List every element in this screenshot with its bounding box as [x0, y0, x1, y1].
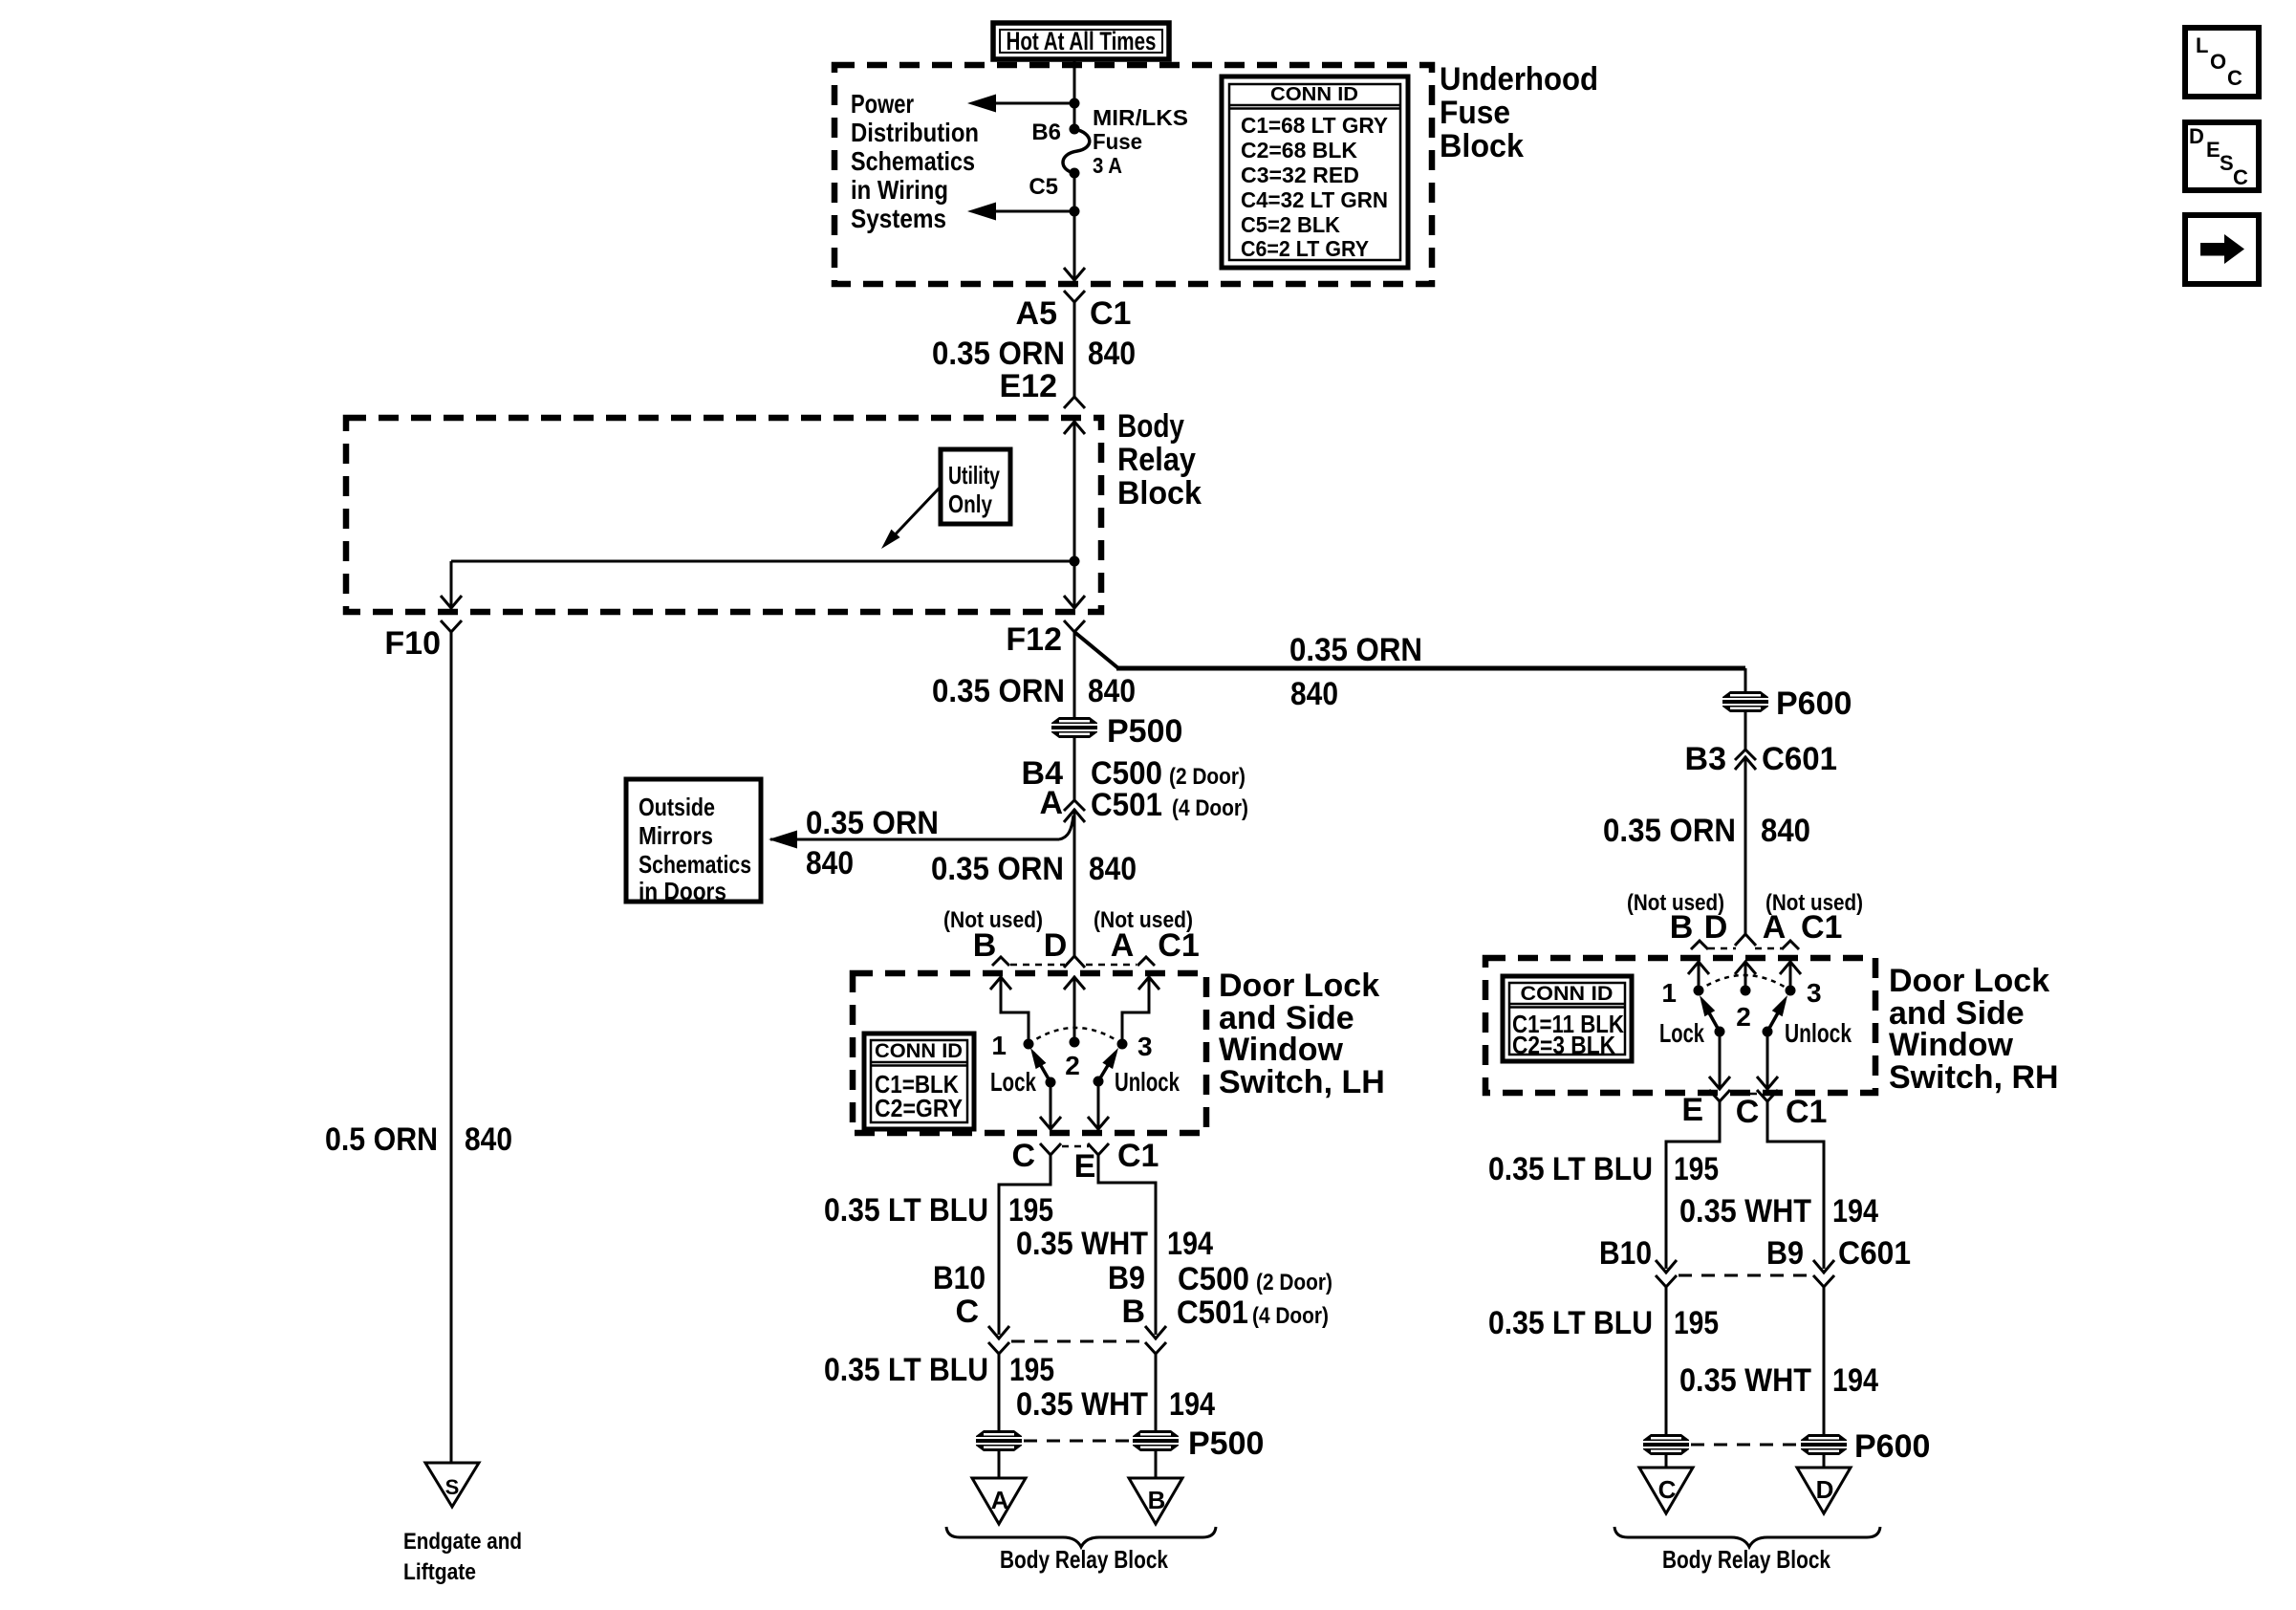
- connector F10 of body relay block: [384, 620, 462, 662]
- svg-text:MIR/LKS: MIR/LKS: [1093, 105, 1188, 130]
- off-page triangle D: [1797, 1468, 1851, 1513]
- svg-text:C501: C501: [1177, 1295, 1248, 1331]
- connector CONN ID table of RH switch: [1503, 976, 1632, 1061]
- connector P600 grommet left: [1643, 1434, 1689, 1455]
- connector dashed link C500/C501: [1011, 1340, 1143, 1343]
- wire utility-only branch horizontal: [451, 560, 1074, 563]
- label 0.35 ORN (right top): [1289, 632, 1422, 668]
- wire C1 jog right (RH 194): [1767, 1101, 1824, 1269]
- label Endgate and Liftgate: [403, 1529, 522, 1585]
- pin chevron B (RH): [1691, 941, 1708, 949]
- arrow unlock wire at box edge (RH): [1757, 1077, 1778, 1089]
- junction node utility branch: [1070, 556, 1080, 567]
- fuse F MIR/LKS 3A symbol: [1063, 129, 1090, 173]
- svg-text:0.35 ORN: 0.35 ORN: [806, 805, 939, 841]
- wire pin A to terminal 3 (RH): [1789, 962, 1792, 990]
- off-page triangle A: [972, 1478, 1026, 1524]
- svg-text:Block: Block: [1440, 128, 1524, 164]
- label Body Relay Block: [1117, 408, 1202, 511]
- svg-text:Underhood: Underhood: [1440, 61, 1598, 98]
- arrow at F10 exit: [441, 596, 462, 608]
- label 0.35 LT BLU 195 (RH): [1488, 1151, 1719, 1187]
- wire: [1665, 1455, 1668, 1468]
- arrow at F12 exit: [1064, 596, 1085, 608]
- leader arrow from Utility Only box: [881, 487, 941, 549]
- wire: [1073, 632, 1076, 718]
- svg-text:D: D: [1704, 909, 1728, 946]
- svg-text:A: A: [1039, 785, 1063, 821]
- svg-text:Only: Only: [948, 490, 992, 518]
- body relay block dashed box: [346, 418, 1101, 612]
- label 0.35 LT BLU 195 (lower): [824, 1352, 1054, 1388]
- door lock and side window switch RH dashed box: [1485, 958, 1875, 1093]
- svg-text:Window: Window: [1889, 1027, 2014, 1063]
- svg-text:0.35 WHT: 0.35 WHT: [1679, 1193, 1811, 1229]
- svg-text:(2 Door): (2 Door): [1169, 764, 1245, 790]
- label Door Lock and Side Window Switch, LH: [1219, 968, 1385, 1100]
- arrow lock wire at box edge (RH): [1709, 1077, 1730, 1089]
- svg-text:C4=32 LT GRN: C4=32 LT GRN: [1241, 187, 1388, 212]
- connector pin D (main): [1064, 956, 1085, 968]
- svg-text:C1: C1: [1158, 927, 1199, 964]
- label 0.35 WHT 194 (lower): [1016, 1386, 1215, 1423]
- label 0.35 WHT 194: [1016, 1226, 1213, 1262]
- svg-text:1: 1: [1661, 978, 1677, 1008]
- wire inside body relay block: [1073, 422, 1076, 606]
- label 0.35 ORN 840: [932, 336, 1136, 372]
- svg-text:Utility: Utility: [948, 461, 1000, 490]
- svg-text:Systems: Systems: [851, 204, 946, 233]
- terminal 2 (RH): [1736, 986, 1751, 1033]
- wire pin B to terminal 1 (RH): [1698, 962, 1700, 990]
- svg-text:(4 Door): (4 Door): [1172, 795, 1248, 821]
- svg-text:C1: C1: [1117, 1138, 1159, 1174]
- label B10 / B9 / C601 (RH): [1599, 1235, 1911, 1272]
- svg-text:P500: P500: [1107, 713, 1182, 750]
- pin chevron B: [992, 957, 1009, 966]
- arrow pin D into edge: [1064, 977, 1085, 990]
- svg-text:F10: F10: [384, 625, 441, 662]
- label B4 / C500 (2 Door): [1022, 755, 1245, 792]
- node Hot At All Times label box: [993, 23, 1169, 59]
- switch throw dashed arc (RH): [1699, 975, 1790, 990]
- wire arrow to power distribution schematics (lower): [967, 203, 1074, 221]
- svg-text:C3=32 RED: C3=32 RED: [1241, 163, 1359, 187]
- svg-text:Body Relay Block: Body Relay Block: [1000, 1545, 1168, 1574]
- pin C5 of fuse: [1029, 168, 1079, 201]
- wire 0.35 ORN 840 (to RH door): [1074, 632, 1745, 692]
- label 0.35 ORN 840: [1603, 813, 1810, 849]
- connector C601 inline left: [1656, 1260, 1677, 1287]
- connector dashed links (RH C1): [1708, 947, 1782, 950]
- svg-text:C1: C1: [1090, 295, 1131, 332]
- svg-text:0.5 ORN: 0.5 ORN: [325, 1121, 438, 1158]
- svg-text:840: 840: [806, 845, 854, 881]
- svg-text:C601: C601: [1838, 1235, 1911, 1272]
- svg-text:S: S: [445, 1475, 460, 1499]
- svg-text:B: B: [1121, 1294, 1145, 1330]
- svg-text:in Doors: in Doors: [639, 877, 726, 905]
- svg-text:CONN ID: CONN ID: [1521, 983, 1614, 1005]
- pin chevron A: [1137, 957, 1155, 966]
- wire: [998, 1451, 1001, 1478]
- connector dashed link P600: [1691, 1444, 1799, 1447]
- svg-text:Power: Power: [851, 89, 914, 119]
- svg-text:Mirrors: Mirrors: [639, 821, 713, 850]
- wire: [1073, 738, 1076, 800]
- svg-text:B6: B6: [1031, 120, 1061, 145]
- svg-text:0.35 LT BLU: 0.35 LT BLU: [1488, 1305, 1653, 1341]
- connector E / C1 below RH switch: [1681, 1090, 1730, 1128]
- svg-text:Distribution: Distribution: [851, 118, 979, 147]
- terminal 3 (RH): [1786, 978, 1822, 1008]
- svg-text:0.35 WHT: 0.35 WHT: [1679, 1362, 1811, 1399]
- svg-text:840: 840: [1761, 813, 1810, 849]
- pin B6 of fuse: [1031, 120, 1079, 145]
- label 0.35 ORN 840 (mirror branch): [806, 805, 939, 881]
- connector P500 grommet (top): [1051, 713, 1182, 750]
- svg-text:C: C: [1658, 1475, 1677, 1504]
- svg-text:P600: P600: [1776, 685, 1852, 722]
- connector P500 grommet right: [1133, 1425, 1264, 1462]
- svg-text:C501: C501: [1091, 787, 1162, 823]
- door lock and side window switch LH dashed box: [853, 973, 1206, 1133]
- svg-text:195: 195: [1008, 1192, 1053, 1229]
- wire branch to outside mirrors schematics: [769, 810, 1085, 849]
- svg-text:3 A: 3 A: [1093, 153, 1122, 178]
- svg-text:Fuse: Fuse: [1093, 129, 1142, 154]
- switch throw dashed arc (LH): [1029, 1028, 1122, 1044]
- label (Not used) left: [943, 907, 1043, 933]
- svg-text:B10: B10: [933, 1260, 986, 1296]
- svg-text:CONN ID: CONN ID: [1270, 84, 1358, 105]
- label Lock (LH): [990, 1067, 1036, 1097]
- wire E jog left (195): [999, 1155, 1051, 1335]
- svg-text:Outside: Outside: [639, 793, 715, 821]
- svg-text:C2=3 BLK: C2=3 BLK: [1512, 1031, 1615, 1059]
- svg-text:Fuse: Fuse: [1440, 95, 1510, 131]
- svg-text:C500: C500: [1178, 1261, 1249, 1297]
- wire 195 to P600: [1665, 1287, 1668, 1434]
- wire 194 to P600: [1823, 1287, 1826, 1434]
- connector dashed link (RH C1 lower): [1738, 1093, 1763, 1096]
- label 0.35 ORN 840: [931, 851, 1137, 887]
- arrow pin B into edge (RH): [1688, 962, 1709, 974]
- svg-text:B9: B9: [1108, 1260, 1145, 1296]
- svg-text:in Wiring: in Wiring: [851, 175, 948, 205]
- wire: [1744, 712, 1747, 750]
- svg-text:E: E: [2206, 138, 2220, 162]
- pin labels B D A C1 (LH switch C1): [973, 927, 1200, 964]
- svg-text:Unlock: Unlock: [1115, 1067, 1180, 1097]
- svg-text:C2=GRY: C2=GRY: [875, 1094, 963, 1122]
- svg-text:0.35 ORN: 0.35 ORN: [932, 673, 1065, 709]
- connector P600 grommet right: [1801, 1428, 1930, 1465]
- svg-text:B9: B9: [1766, 1235, 1804, 1272]
- label MIR/LKS Fuse 3 A: [1093, 105, 1188, 178]
- connector P500 grommet left: [976, 1430, 1022, 1451]
- wire: [1155, 1451, 1158, 1478]
- svg-text:0.35 LT BLU: 0.35 LT BLU: [1488, 1151, 1653, 1187]
- connector C / C1 below RH switch: [1736, 1090, 1828, 1130]
- brace body relay block (RH): [1614, 1527, 1880, 1547]
- svg-text:C: C: [1011, 1138, 1035, 1174]
- connector C601 inline right: [1813, 1260, 1834, 1287]
- wire: [1073, 103, 1076, 129]
- svg-text:Hot At All Times: Hot At All Times: [1007, 27, 1157, 55]
- svg-text:B: B: [973, 927, 997, 964]
- svg-text:C: C: [2227, 66, 2242, 90]
- wire pin D to terminal 2 (RH): [1744, 962, 1747, 990]
- svg-text:C: C: [2233, 165, 2248, 189]
- wire 0.35 ORN 840 (fuse block to body relay block): [1073, 302, 1076, 397]
- svg-text:D: D: [1044, 927, 1068, 964]
- label Door Lock and Side Window Switch, RH: [1889, 963, 2059, 1096]
- icon box LOC: [2185, 28, 2259, 97]
- svg-text:A: A: [1763, 909, 1787, 946]
- svg-text:Body Relay Block: Body Relay Block: [1662, 1545, 1830, 1574]
- wire 0.35 ORN 840 (to LH switch): [1073, 809, 1076, 956]
- svg-text:0.35 WHT: 0.35 WHT: [1016, 1226, 1148, 1262]
- connector F12 of body relay block: [1006, 620, 1085, 658]
- label B10 / C (pins into body relay block LH): [933, 1260, 986, 1330]
- wire: [1823, 1455, 1826, 1468]
- arrow pin D into edge (RH): [1735, 962, 1756, 974]
- junction node B6 feed: [1070, 98, 1080, 109]
- terminal 2 (LH): [1065, 1037, 1080, 1081]
- arrow pin A into edge: [1138, 977, 1159, 990]
- terminal 1 (RH): [1661, 978, 1703, 1008]
- wire 0.35 ORN 840 (to RH switch): [1744, 756, 1747, 934]
- svg-text:C1: C1: [1786, 1094, 1827, 1130]
- svg-text:S: S: [2220, 151, 2234, 175]
- arrow unlock wire at box edge (LH): [1088, 1117, 1109, 1129]
- svg-text:3: 3: [1807, 978, 1822, 1008]
- wire pin D to terminal 2: [1073, 977, 1076, 1042]
- svg-text:Window: Window: [1219, 1032, 1344, 1068]
- svg-text:B10: B10: [1599, 1235, 1652, 1272]
- svg-text:P600: P600: [1854, 1428, 1930, 1465]
- svg-text:194: 194: [1167, 1226, 1213, 1262]
- terminal 1 (LH): [991, 1031, 1033, 1060]
- svg-text:194: 194: [1169, 1386, 1215, 1423]
- connector C / C1 below LH switch: [1011, 1138, 1061, 1174]
- note box Outside Mirrors Schematics in Doors: [626, 779, 761, 905]
- wire pin B to terminal 1: [1001, 977, 1029, 1044]
- wire 195 to P500: [998, 1354, 1001, 1430]
- svg-text:C5: C5: [1029, 174, 1058, 200]
- svg-text:P500: P500: [1188, 1425, 1264, 1462]
- svg-text:CONN ID: CONN ID: [875, 1040, 963, 1062]
- connector dashed link (LH C1 lower): [1062, 1145, 1089, 1148]
- svg-text:2: 2: [1065, 1051, 1080, 1080]
- wire utility-only branch down: [450, 561, 453, 606]
- switch arm lock (LH): [1030, 1048, 1056, 1088]
- wire C1 jog right (194): [1098, 1155, 1156, 1335]
- svg-text:840: 840: [1088, 673, 1136, 709]
- arrow exiting fuse block: [1064, 268, 1085, 280]
- wire: [1073, 211, 1076, 278]
- svg-text:840: 840: [1088, 336, 1136, 372]
- svg-text:195: 195: [1009, 1352, 1054, 1388]
- wire lock arm down (LH): [1050, 1082, 1052, 1127]
- connector pin D (RH main): [1735, 934, 1756, 946]
- arrow pin B into edge: [990, 977, 1011, 990]
- switch arm unlock (RH): [1763, 995, 1788, 1037]
- svg-text:194: 194: [1832, 1193, 1878, 1229]
- svg-text:C: C: [1736, 1094, 1760, 1130]
- off-page triangle C: [1639, 1468, 1693, 1513]
- wire lock arm down (RH): [1719, 1032, 1722, 1087]
- label B9 / B (pins into body relay block LH): [1108, 1260, 1145, 1330]
- wire: [1073, 173, 1076, 211]
- label C500 (2 Door) / C501 (4 Door) right: [1177, 1261, 1332, 1331]
- svg-text:B: B: [1670, 909, 1694, 946]
- switch arm unlock (LH): [1094, 1048, 1119, 1087]
- wire E jog left (RH 195): [1666, 1101, 1720, 1269]
- svg-text:840: 840: [465, 1121, 512, 1158]
- label Body Relay Block (RH bottom): [1662, 1545, 1830, 1574]
- svg-text:Switch, LH: Switch, LH: [1219, 1064, 1385, 1100]
- svg-text:C601: C601: [1762, 741, 1837, 777]
- svg-text:D: D: [2189, 124, 2204, 148]
- svg-text:0.35 ORN: 0.35 ORN: [932, 336, 1065, 372]
- svg-text:840: 840: [1290, 676, 1338, 712]
- svg-text:2: 2: [1736, 1002, 1751, 1032]
- svg-text:Schematics: Schematics: [851, 146, 975, 176]
- off-page triangle S: [425, 1463, 479, 1507]
- icon box DESC: [2185, 122, 2259, 190]
- terminal 3 (LH): [1117, 1032, 1153, 1061]
- arrow entering body relay block: [1064, 422, 1085, 434]
- svg-text:0.35 ORN: 0.35 ORN: [931, 851, 1064, 887]
- svg-text:C5=2 BLK: C5=2 BLK: [1241, 212, 1340, 237]
- arrow pin A into edge (RH): [1780, 962, 1801, 974]
- svg-text:C1: C1: [1801, 909, 1842, 946]
- svg-text:C1=68 LT GRY: C1=68 LT GRY: [1241, 113, 1388, 138]
- svg-text:0.35 ORN: 0.35 ORN: [1289, 632, 1422, 668]
- svg-text:Lock: Lock: [1659, 1018, 1704, 1048]
- svg-text:Door Lock: Door Lock: [1219, 968, 1379, 1004]
- pin labels B D A C1 (RH switch C1): [1670, 909, 1843, 946]
- svg-text:B3: B3: [1685, 741, 1726, 777]
- wire pin A to terminal 3: [1122, 977, 1149, 1044]
- label 0.35 ORN 840: [932, 673, 1136, 709]
- svg-text:E12: E12: [1000, 368, 1058, 404]
- note box Utility Only: [941, 449, 1010, 524]
- junction node C5 feed: [1070, 207, 1080, 217]
- connector E12 of body relay block: [1000, 368, 1086, 408]
- svg-text:Block: Block: [1117, 475, 1202, 511]
- svg-text:840: 840: [1089, 851, 1137, 887]
- svg-text:0.35 LT BLU: 0.35 LT BLU: [824, 1352, 988, 1388]
- wire unlock arm down (LH): [1097, 1081, 1100, 1127]
- svg-text:(2 Door): (2 Door): [1256, 1270, 1332, 1295]
- svg-text:Body: Body: [1117, 408, 1184, 445]
- svg-text:C: C: [955, 1294, 979, 1330]
- svg-text:194: 194: [1832, 1362, 1878, 1399]
- svg-text:(4 Door): (4 Door): [1252, 1303, 1329, 1329]
- underhood fuse block dashed box: [834, 65, 1432, 284]
- wire unlock arm down (RH): [1766, 1032, 1769, 1087]
- svg-text:A: A: [991, 1486, 1009, 1514]
- connector C500/C501 inline left: [988, 1326, 1009, 1354]
- svg-text:D: D: [1816, 1475, 1834, 1504]
- svg-text:Endgate and: Endgate and: [403, 1529, 522, 1555]
- svg-text:Unlock: Unlock: [1785, 1018, 1852, 1048]
- svg-text:Switch, RH: Switch, RH: [1889, 1059, 2059, 1096]
- label Lock (RH): [1659, 1018, 1704, 1048]
- label 0.5 ORN 840: [325, 1121, 512, 1158]
- wire 0.5 ORN 840 (to endgate/liftgate): [450, 632, 453, 1463]
- connector E / C1 below LH switch: [1074, 1138, 1159, 1185]
- svg-text:Relay: Relay: [1117, 442, 1196, 478]
- connector C500/C501 inline right: [1145, 1326, 1166, 1354]
- svg-text:195: 195: [1674, 1305, 1719, 1341]
- svg-text:O: O: [2210, 50, 2226, 74]
- label Unlock (LH): [1115, 1067, 1180, 1097]
- label Power Distribution Schematics in Wiring Systems: [851, 89, 979, 233]
- wire arrow to power distribution schematics (upper): [967, 95, 1074, 113]
- label (Not used) right: [1094, 907, 1193, 933]
- svg-text:Schematics: Schematics: [639, 850, 751, 879]
- label 0.35 WHT 194 (RH lower): [1679, 1362, 1878, 1399]
- connector CONN ID table of LH switch: [864, 1033, 974, 1129]
- svg-text:0.35 LT BLU: 0.35 LT BLU: [824, 1192, 988, 1229]
- label Unlock (RH): [1785, 1018, 1852, 1048]
- connector CONN ID table of fuse block: [1222, 76, 1408, 268]
- pin chevron A (RH): [1782, 941, 1799, 949]
- svg-text:F12: F12: [1006, 621, 1062, 658]
- connector dashed link C601: [1679, 1274, 1811, 1277]
- svg-text:B: B: [1148, 1486, 1166, 1514]
- svg-text:195: 195: [1674, 1151, 1719, 1187]
- connector B3 / C601 inline: [1685, 741, 1837, 777]
- svg-text:C2=68 BLK: C2=68 BLK: [1241, 138, 1357, 163]
- switch arm lock (RH): [1700, 995, 1725, 1037]
- svg-text:E: E: [1074, 1148, 1096, 1185]
- svg-text:L: L: [2196, 33, 2208, 57]
- label Underhood Fuse Block: [1440, 61, 1598, 164]
- wire from Hot At All Times into fuse block: [1073, 59, 1076, 103]
- wire 194 to P500: [1155, 1354, 1158, 1430]
- svg-text:C6=2 LT GRY: C6=2 LT GRY: [1241, 236, 1369, 261]
- svg-text:3: 3: [1137, 1032, 1153, 1061]
- svg-text:0.35 WHT: 0.35 WHT: [1016, 1386, 1148, 1423]
- connector A5/C1 of underhood fuse block: [1016, 291, 1132, 332]
- off-page triangle B: [1129, 1478, 1182, 1524]
- label 0.35 LT BLU 195 (RH lower): [1488, 1305, 1719, 1341]
- svg-text:Lock: Lock: [990, 1067, 1036, 1097]
- svg-text:Liftgate: Liftgate: [403, 1559, 476, 1585]
- svg-text:0.35 ORN: 0.35 ORN: [1603, 813, 1736, 849]
- svg-text:A: A: [1111, 927, 1135, 964]
- label 840 (right top): [1290, 676, 1338, 712]
- label (Not used) left (RH): [1627, 890, 1724, 916]
- arrow lock wire at box edge (LH): [1040, 1117, 1061, 1129]
- connector P600 grommet (top): [1722, 685, 1852, 722]
- svg-text:E: E: [1681, 1092, 1703, 1128]
- connector dashed links (LH C1): [1010, 964, 1137, 967]
- svg-text:1: 1: [991, 1031, 1007, 1060]
- svg-text:Door Lock: Door Lock: [1889, 963, 2049, 999]
- svg-text:A5: A5: [1016, 295, 1057, 332]
- brace body relay block (LH): [946, 1527, 1216, 1547]
- connector dashed link P500: [1024, 1440, 1131, 1443]
- label 0.35 WHT 194 (RH): [1679, 1193, 1878, 1229]
- connector A / C501 (4 Door) inline: [1039, 785, 1248, 823]
- label 0.35 LT BLU 195: [824, 1192, 1053, 1229]
